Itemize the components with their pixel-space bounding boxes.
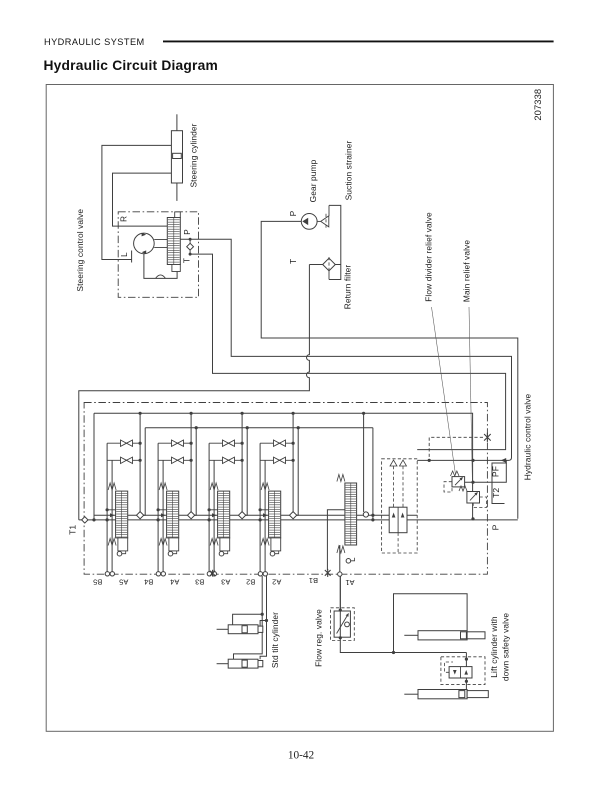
upper tilt cylinder — [228, 625, 258, 634]
svg-text:Main relief valve: Main relief valve — [462, 240, 472, 302]
flow divider — [382, 459, 418, 553]
svg-text:HYDRAULIC SYSTEM: HYDRAULIC SYSTEM — [44, 37, 145, 47]
lower lift cylinder — [418, 690, 467, 699]
svg-text:Steering control valve: Steering control valve — [75, 209, 85, 292]
steering cylinder piston — [173, 153, 182, 158]
lower tilt cylinder — [228, 659, 258, 668]
gerotor to spool links — [154, 239, 167, 241]
svg-text:T1: T1 — [68, 525, 78, 535]
svg-text:B4: B4 — [144, 578, 153, 587]
return filter — [323, 258, 336, 271]
plugged port on boundary — [484, 433, 491, 442]
svg-text:Flow divider relief valve: Flow divider relief valve — [424, 212, 434, 302]
bus 2 — [145, 427, 373, 429]
leader flow divider relief — [432, 307, 456, 475]
svg-text:Steering cylinder: Steering cylinder — [189, 123, 199, 187]
svg-text:Hydraulic Circuit Diagram: Hydraulic Circuit Diagram — [44, 58, 218, 73]
wire tank T with crossover jogs — [79, 265, 310, 520]
header rule — [163, 40, 554, 42]
svg-text:10-42: 10-42 — [288, 750, 315, 762]
steering control valve boundary — [118, 212, 198, 297]
leader main relief — [469, 307, 473, 489]
svg-text:Lift cylinder with: Lift cylinder with — [489, 616, 499, 678]
gear pump — [301, 214, 317, 230]
suction strainer — [317, 220, 321, 222]
wire cylinder right port to steering valve R — [113, 173, 172, 226]
svg-text:P: P — [490, 524, 500, 530]
wire flow reg to lift cylinders — [340, 637, 466, 652]
B1 plug line — [327, 510, 345, 570]
PF port — [492, 460, 506, 482]
svg-text:Hydraulic control valve: Hydraulic control valve — [523, 393, 533, 480]
svg-text:B5: B5 — [93, 578, 102, 587]
steering spool — [167, 218, 180, 265]
upper lift cylinder — [418, 631, 467, 640]
P port — [189, 238, 192, 241]
svg-text:P: P — [183, 229, 192, 235]
A1 line — [339, 545, 341, 572]
P gallery — [94, 514, 417, 516]
svg-text:PF: PF — [490, 466, 500, 477]
svg-text:A5: A5 — [119, 578, 128, 587]
L port stub — [131, 251, 133, 263]
svg-text:B3: B3 — [195, 578, 204, 587]
svg-text:T: T — [289, 259, 298, 264]
loop to upper lift cylinder — [394, 594, 468, 653]
wire pump P to control valve P port — [261, 221, 518, 518]
valve section 5 — [363, 413, 365, 512]
B2 wire to tilt cylinders — [234, 576, 263, 659]
flow reg valve — [331, 608, 355, 641]
svg-text:A2: A2 — [272, 578, 281, 587]
hydraulic control valve boundary — [84, 403, 487, 575]
down safety valve — [465, 653, 467, 667]
flow divider relief valve — [452, 477, 465, 487]
svg-text:Suction strainer: Suction strainer — [343, 141, 353, 201]
svg-text:207338: 207338 — [532, 89, 543, 121]
svg-text:down safety valve: down safety valve — [501, 613, 511, 682]
svg-text:B2: B2 — [246, 578, 255, 587]
steering cylinder body — [171, 131, 182, 183]
A1 wire down to flow reg valve — [339, 576, 342, 610]
wire to lower lift cylinder — [465, 678, 467, 690]
valve section — [207, 412, 247, 576]
steering cylinder rod — [176, 114, 178, 201]
wire PF feed from flow divider — [417, 459, 502, 461]
check valve P-T — [189, 239, 191, 254]
A2 wire to tilt cylinders — [260, 576, 266, 659]
svg-text:Gear pump: Gear pump — [308, 159, 318, 202]
svg-text:A4: A4 — [170, 578, 179, 587]
spool feedback loop — [144, 254, 177, 279]
svg-text:Flow reg. valve: Flow reg. valve — [314, 609, 324, 667]
left feed riser — [93, 413, 95, 520]
main relief valve — [467, 492, 480, 504]
bus 1 — [94, 413, 473, 491]
wire steering T return — [190, 254, 506, 450]
svg-text:B1: B1 — [309, 576, 318, 585]
svg-text:T2: T2 — [491, 488, 501, 498]
svg-text:Std tilt cylinder: Std tilt cylinder — [270, 612, 280, 668]
tank — [329, 205, 341, 279]
svg-text:Return filter: Return filter — [342, 265, 352, 310]
svg-text:A1: A1 — [345, 578, 354, 587]
svg-text:P: P — [289, 210, 298, 216]
T1 gallery — [79, 519, 518, 521]
gerotor pump — [134, 233, 155, 254]
svg-text:T: T — [182, 258, 191, 263]
valve section — [156, 412, 196, 576]
plugged port A3/B3 — [210, 570, 215, 577]
wire cylinder left port to steering valve L — [102, 145, 171, 259]
pilot drain dashed — [429, 437, 483, 459]
svg-text:L: L — [120, 252, 129, 257]
valve section — [258, 412, 298, 576]
T line to filter — [309, 264, 322, 266]
T port — [189, 253, 192, 256]
svg-text:A3: A3 — [221, 578, 230, 587]
valve section — [105, 412, 145, 576]
svg-text:R: R — [120, 216, 129, 222]
T2 port — [492, 482, 505, 503]
wire steering P to PF — [180, 239, 511, 460]
relief to T2 link — [465, 481, 492, 483]
